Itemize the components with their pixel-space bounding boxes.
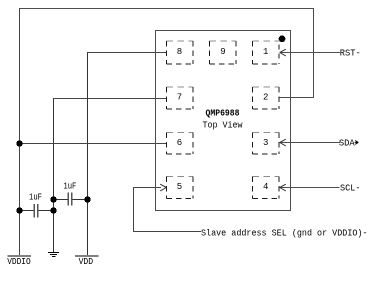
wire pin 6 to VDDIO left border — [19, 143, 166, 145]
svg-text:3: 3 — [263, 138, 268, 148]
capacitor C1 left lead — [20, 210, 34, 212]
pad pin 2 — [253, 87, 280, 109]
wire VDDIO net: left border vertical — [19, 8, 21, 256]
pad pin 3 — [253, 132, 280, 154]
svg-text:VDD: VDD — [79, 257, 94, 267]
wire SCL to pin 4 — [281, 187, 340, 189]
svg-text:VDDIO: VDDIO — [7, 257, 31, 267]
svg-text:SCL-: SCL- — [340, 183, 361, 193]
wire RST to pin 1 — [281, 52, 340, 54]
capacitor C2 left lead — [54, 199, 68, 201]
svg-text:6: 6 — [177, 138, 182, 148]
pad pin 8 — [166, 41, 193, 64]
pin 1 arrowhead — [280, 49, 286, 56]
power rail VDD bar — [75, 255, 99, 257]
wire pin 2 to VDDIO drop — [279, 97, 314, 99]
wire VDD net vertical — [87, 53, 89, 256]
svg-text:RST-: RST- — [340, 48, 361, 58]
capacitor C1 right lead — [38, 210, 54, 212]
svg-text:SDA: SDA — [339, 138, 355, 148]
pin 5 arrowhead — [160, 184, 166, 191]
pad pin 9 — [210, 41, 237, 64]
wire pin 8 to VDD vertical — [87, 52, 167, 54]
svg-text:1: 1 — [263, 47, 268, 57]
wire pin 7 to GND vertical — [53, 98, 167, 100]
wire VDDIO net: right drop to pin 2 — [313, 8, 315, 98]
pad pin 5 — [166, 177, 193, 199]
pin 1 index marker dot — [279, 35, 286, 42]
pad pin 4 — [253, 177, 280, 199]
pin 3 arrowhead — [280, 139, 286, 146]
svg-text:QMP6988: QMP6988 — [206, 108, 240, 119]
node junction dot GND / C1 — [50, 207, 57, 214]
svg-text:5: 5 — [177, 182, 182, 192]
svg-text:2: 2 — [263, 93, 268, 103]
SDA label arrow glyph — [355, 141, 359, 145]
wire SDA to pin 3 — [281, 142, 341, 144]
pad pin 6 — [166, 132, 193, 154]
wire VDDIO net: top border horizontal — [19, 8, 313, 10]
svg-text:4: 4 — [263, 182, 268, 192]
capacitor C2 right lead — [72, 199, 88, 201]
svg-text:Slave address SEL (gnd or VDDI: Slave address SEL (gnd or VDDIO)- — [201, 228, 368, 238]
capacitor C1 plates — [34, 204, 35, 217]
wire GND net vertical — [53, 98, 55, 253]
svg-text:1uF: 1uF — [29, 193, 42, 203]
pad pin 1 — [253, 41, 280, 64]
node junction dot VDDIO / pin 6 — [16, 140, 23, 147]
node junction dot VDD / C2 — [84, 196, 91, 203]
wire pin 5 vertical drop — [133, 188, 135, 233]
svg-text:9: 9 — [220, 47, 225, 57]
pin 4 arrowhead — [280, 184, 286, 191]
node junction dot GND / C2 — [50, 196, 57, 203]
wire pin 5 horizontal (SEL) — [133, 187, 161, 189]
ground symbol — [48, 252, 59, 257]
capacitor C2 plates — [68, 192, 69, 205]
svg-text:Top View: Top View — [203, 120, 243, 131]
IC U1 QMP6988 body outline — [156, 31, 291, 211]
svg-text:8: 8 — [177, 47, 182, 57]
wire SEL to label — [133, 231, 201, 233]
power rail VDDIO bar — [8, 255, 32, 257]
svg-text:1uF: 1uF — [63, 181, 76, 191]
pad pin 7 — [166, 87, 193, 109]
node junction dot VDDIO / C1 — [16, 207, 23, 214]
svg-text:7: 7 — [177, 93, 182, 103]
